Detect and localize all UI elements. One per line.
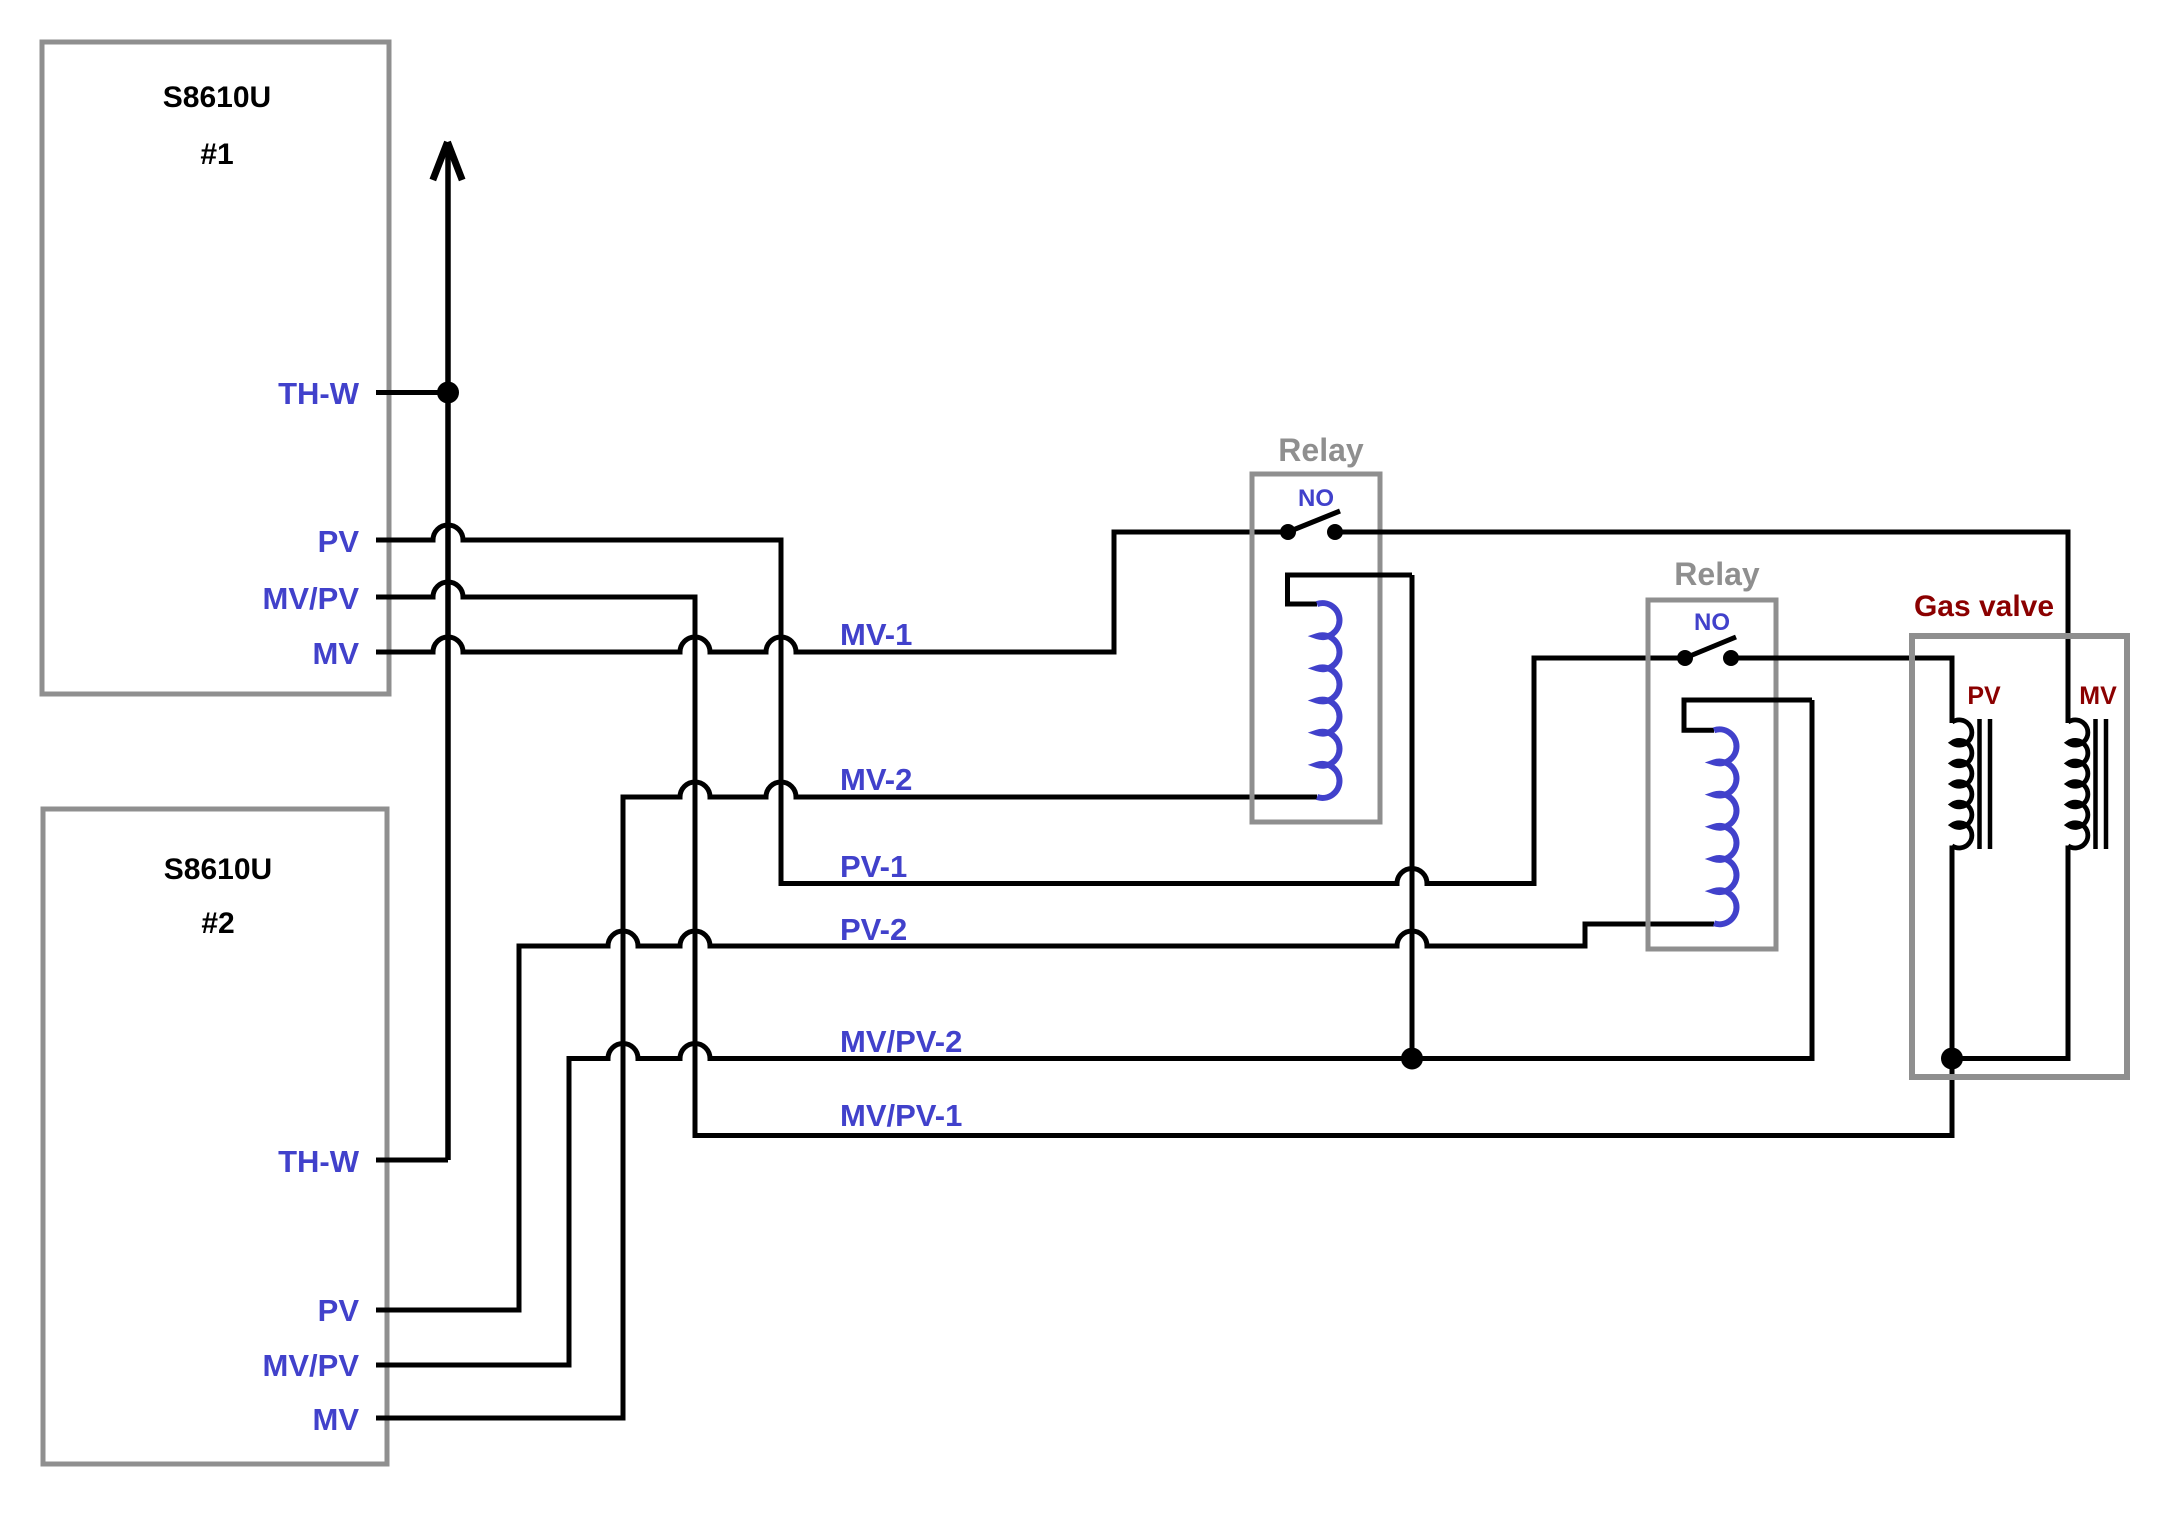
svg-text:PV-1: PV-1 <box>840 849 907 884</box>
gas valve <box>1912 590 2127 1077</box>
relay1 coil top wire <box>1288 575 1413 604</box>
wire TH-W#1 stub <box>376 390 448 395</box>
relay1 NO lever <box>1288 511 1340 532</box>
wire net PV-1 (box1 PV to relay2 NO input) <box>376 525 1680 884</box>
svg-text:PV-2: PV-2 <box>840 912 907 947</box>
relay2 NO contact right <box>1723 650 1739 666</box>
S8610U #1 box <box>42 42 389 694</box>
svg-text:Gas valve: Gas valve <box>1914 590 2054 623</box>
relay1 coil <box>1317 603 1340 798</box>
svg-text:PV: PV <box>318 1293 360 1328</box>
relay2 box <box>1648 600 1776 949</box>
wire net MV/PV-2 (box2 MV/PV to relay coils return) <box>376 700 1812 1365</box>
wire net MV/PV-1 (box1 MV/PV to gas valve common) <box>376 582 1952 1136</box>
gas valve MV coil <box>2068 720 2088 848</box>
svg-text:#1: #1 <box>200 138 233 171</box>
svg-text:S8610U: S8610U <box>164 853 272 886</box>
svg-text:S8610U: S8610U <box>163 81 271 114</box>
relay2 NO contact left <box>1677 650 1693 666</box>
gas valve box <box>1912 636 2127 1077</box>
S8610U #2 box <box>43 809 387 1464</box>
svg-text:Relay: Relay <box>1674 556 1760 592</box>
node MV/PV-2 junction dot <box>1401 1048 1423 1070</box>
wire net PV-2 (box2 PV to relay2 coil bottom) <box>376 924 1714 1310</box>
svg-text:TH-W: TH-W <box>278 376 360 411</box>
svg-text:NO: NO <box>1694 609 1730 636</box>
relay 1 <box>1252 432 1412 822</box>
relay1 NO contact right <box>1327 524 1343 540</box>
svg-text:MV/PV-1: MV/PV-1 <box>840 1098 962 1133</box>
wire gas valve PV coil return <box>1950 846 1955 1059</box>
wire TH-W#2 stub <box>376 1158 448 1163</box>
svg-text:MV/PV: MV/PV <box>263 581 360 616</box>
wire relay1 coil return vertical <box>1410 575 1415 1059</box>
node TH-W junction dot <box>437 382 459 404</box>
wire net MV-1 (box1 MV to relay1 NO input) <box>376 532 1283 652</box>
relay2 coil <box>1714 729 1737 924</box>
svg-text:MV/PV-2: MV/PV-2 <box>840 1024 962 1059</box>
relay1 NO contact left <box>1280 524 1296 540</box>
wire relay2 NO output to gas valve PV <box>1731 658 1952 723</box>
relay1 box <box>1252 474 1380 822</box>
svg-text:MV-1: MV-1 <box>840 617 912 652</box>
svg-text:PV: PV <box>1967 682 2001 710</box>
wire TH-W vertical bus <box>445 142 451 1160</box>
gas valve MV coil core <box>2096 719 2107 849</box>
svg-text:PV: PV <box>318 524 360 559</box>
gas valve PV coil <box>1952 720 1972 848</box>
gas valve PV coil core <box>1980 719 1991 849</box>
svg-text:#2: #2 <box>201 907 234 940</box>
arrow head <box>433 142 462 180</box>
relay2 NO lever <box>1685 637 1736 658</box>
svg-text:MV: MV <box>313 636 360 671</box>
wire relay1 NO output to gas valve MV <box>1335 532 2068 723</box>
svg-text:MV: MV <box>2079 682 2117 710</box>
svg-text:TH-W: TH-W <box>278 1144 360 1179</box>
svg-text:MV/PV: MV/PV <box>263 1348 360 1383</box>
wire gas valve MV coil return <box>1952 846 2068 1059</box>
svg-text:NO: NO <box>1298 485 1334 512</box>
relay2 coil top wire <box>1684 700 1812 730</box>
node gas valve common junction dot <box>1941 1048 1963 1070</box>
relay 2 <box>1648 556 1812 949</box>
svg-text:MV: MV <box>313 1402 360 1437</box>
svg-text:Relay: Relay <box>1278 432 1364 468</box>
wire net MV-2 (box2 MV to relay1 coil bottom) <box>376 782 1317 1418</box>
svg-text:MV-2: MV-2 <box>840 762 912 797</box>
